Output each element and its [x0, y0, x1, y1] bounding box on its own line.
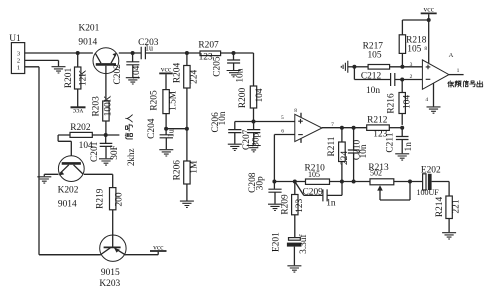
svg-text:104: 104 — [132, 65, 142, 79]
svg-text:U1: U1 — [9, 34, 21, 44]
svg-text:5: 5 — [281, 115, 284, 121]
svg-text:1u: 1u — [145, 44, 153, 53]
svg-text:224: 224 — [189, 69, 199, 83]
svg-text:10n: 10n — [218, 111, 228, 125]
svg-text:vcc: vcc — [161, 65, 172, 74]
svg-text:123: 123 — [199, 52, 213, 62]
svg-text:C201: C201 — [90, 141, 100, 162]
svg-text:502: 502 — [370, 168, 382, 177]
svg-text:R214: R214 — [435, 197, 445, 218]
svg-text:vcc: vcc — [72, 107, 83, 116]
svg-text:R202: R202 — [70, 123, 91, 133]
svg-text:K203: K203 — [99, 279, 120, 289]
svg-text:30p: 30p — [256, 176, 266, 190]
svg-text:C212: C212 — [361, 71, 382, 81]
svg-text:8: 8 — [424, 46, 427, 52]
svg-text:1n: 1n — [326, 199, 336, 209]
svg-text:105: 105 — [407, 45, 421, 55]
svg-text:C209: C209 — [303, 188, 324, 198]
svg-text:1n: 1n — [404, 142, 414, 152]
svg-text:9014: 9014 — [78, 37, 97, 47]
svg-text:123: 123 — [295, 198, 305, 212]
svg-text:6: 6 — [281, 129, 284, 135]
svg-text:1u: 1u — [166, 129, 175, 137]
svg-text:1.5M: 1.5M — [169, 90, 179, 111]
svg-text:105: 105 — [367, 51, 381, 61]
svg-text:R212: R212 — [367, 115, 388, 125]
svg-text:200: 200 — [114, 192, 124, 206]
svg-text:9015: 9015 — [101, 268, 120, 278]
svg-text:30p: 30p — [251, 132, 261, 146]
svg-text:104: 104 — [255, 88, 265, 102]
svg-text:R206: R206 — [172, 160, 182, 181]
svg-text:100UF: 100UF — [416, 188, 439, 197]
svg-text:A: A — [449, 52, 454, 59]
svg-text:R203: R203 — [92, 96, 102, 117]
svg-text:E201: E201 — [272, 232, 282, 252]
svg-text:C205: C205 — [213, 56, 223, 77]
svg-text:R207: R207 — [198, 41, 219, 51]
svg-text:K202: K202 — [58, 185, 79, 195]
svg-text:10n: 10n — [236, 68, 246, 82]
svg-text:30F: 30F — [110, 145, 120, 160]
svg-text:1: 1 — [457, 68, 460, 74]
svg-text:R211: R211 — [327, 136, 337, 156]
svg-text:R201: R201 — [64, 68, 74, 89]
svg-text:2khz: 2khz — [126, 149, 136, 167]
svg-text:3.3uf: 3.3uf — [298, 233, 309, 253]
svg-text:E202: E202 — [421, 165, 441, 175]
svg-text:12K: 12K — [79, 70, 89, 86]
svg-text:K201: K201 — [78, 23, 99, 33]
svg-text:105: 105 — [308, 170, 320, 179]
svg-text:vcc: vcc — [153, 243, 164, 252]
svg-text:C202: C202 — [113, 64, 123, 85]
svg-text:R216: R216 — [387, 93, 397, 114]
svg-text:9014: 9014 — [58, 200, 77, 210]
svg-text:C207: C207 — [242, 129, 252, 150]
svg-text:3: 3 — [410, 62, 413, 68]
svg-text:C211: C211 — [386, 132, 396, 152]
svg-text:R205: R205 — [149, 90, 159, 111]
svg-text:4: 4 — [425, 97, 428, 103]
svg-text:2: 2 — [17, 57, 20, 64]
svg-text:R209: R209 — [280, 194, 290, 215]
svg-text:1M: 1M — [189, 160, 199, 174]
svg-text:R219: R219 — [95, 188, 105, 209]
svg-text:C204: C204 — [147, 118, 157, 139]
svg-text:10n: 10n — [359, 144, 369, 158]
svg-text:10n: 10n — [366, 86, 380, 96]
svg-text:vcc: vcc — [423, 5, 434, 14]
svg-text:8: 8 — [294, 108, 297, 114]
svg-text:221: 221 — [452, 199, 462, 213]
svg-text:1: 1 — [17, 64, 20, 71]
svg-text:104: 104 — [403, 95, 413, 109]
svg-text:2: 2 — [410, 74, 413, 80]
svg-text:100K: 100K — [103, 95, 113, 116]
svg-text:R200: R200 — [238, 88, 248, 109]
svg-text:R204: R204 — [172, 63, 182, 84]
